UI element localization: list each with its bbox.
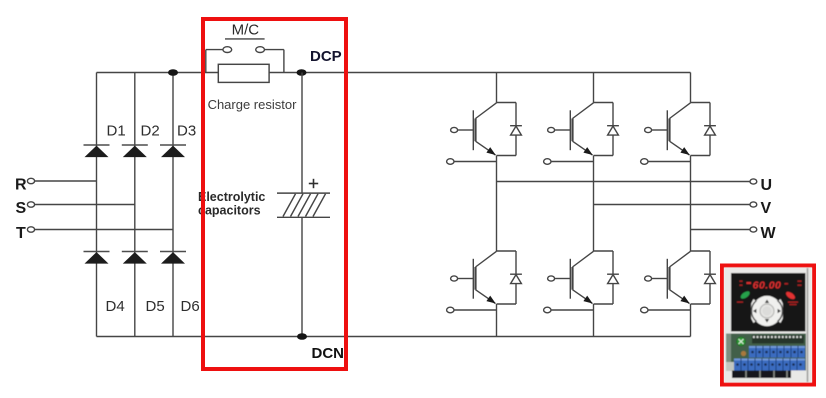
capacitor polarity plus [309, 179, 318, 188]
svg-text:S: S [16, 200, 27, 217]
auxiliary emitter Q5 [544, 307, 594, 313]
svg-text:Charge resistor: Charge resistor [208, 97, 298, 112]
svg-text:Electrolytic: Electrolytic [198, 190, 265, 204]
resistor charge resistor body [218, 64, 269, 82]
transistor IGBT Q2 [548, 103, 594, 155]
auxiliary emitter Q1 [447, 159, 497, 165]
label S [16, 200, 27, 217]
wire inverter leg2 middle [593, 156, 595, 252]
terminal V [750, 202, 757, 207]
label T [16, 225, 26, 242]
freewheel diode Q5 [594, 251, 619, 304]
label D1 [107, 123, 126, 140]
label W [761, 225, 777, 242]
label Charge resistor [208, 97, 298, 112]
svg-text:U: U [761, 177, 773, 194]
contactor M/C bypass wiring [206, 50, 284, 73]
auxiliary emitter Q3 [641, 159, 691, 165]
auxiliary emitter Q4 [447, 307, 497, 313]
terminal T [27, 227, 34, 232]
label V [761, 200, 772, 217]
wire phase U [497, 181, 751, 183]
transistor IGBT Q5 [548, 251, 594, 303]
wire input T [35, 229, 174, 231]
diode D6 [160, 252, 186, 264]
label D3 [177, 123, 196, 140]
auxiliary emitter Q2 [544, 159, 594, 165]
label Electrolytic capacitors [198, 190, 265, 217]
svg-text:D2: D2 [141, 123, 160, 140]
label D2 [141, 123, 160, 140]
terminal S [27, 202, 34, 207]
wire DC link lower [301, 217, 303, 336]
freewheel diode Q2 [594, 103, 619, 156]
highlight box charge circuit [203, 19, 346, 369]
contactor underline [225, 38, 265, 40]
freewheel diode Q6 [691, 251, 716, 304]
wire inverter leg3 middle [690, 156, 692, 252]
transistor IGBT Q3 [645, 103, 691, 155]
svg-text:D1: D1 [107, 123, 126, 140]
wire rectifier leg 2 vertical [134, 73, 136, 337]
svg-text:D5: D5 [146, 298, 165, 315]
svg-text:DCN: DCN [312, 345, 345, 362]
keypad photo [724, 268, 812, 383]
wire rectifier leg 1 vertical [96, 73, 98, 337]
wire inverter leg1 top [496, 73, 498, 103]
junction top bus / leg 3 [168, 69, 178, 76]
node DCP [297, 69, 307, 76]
transistor IGBT Q4 [451, 251, 497, 303]
label D5 [146, 298, 165, 315]
diode D5 [122, 252, 148, 264]
transistor IGBT Q6 [645, 251, 691, 303]
wire top DC bus left segment [97, 72, 219, 74]
wire inverter leg3 top [690, 73, 692, 103]
contactor M/C left contact [223, 47, 232, 53]
contactor M/C right contact [256, 47, 265, 53]
terminal U [750, 179, 757, 184]
svg-text:W: W [761, 225, 777, 242]
capacitor electrolytic [277, 193, 330, 217]
wire phase V [594, 204, 751, 206]
svg-text:D3: D3 [177, 123, 196, 140]
wire inverter leg1 middle [496, 156, 498, 252]
label D6 [181, 298, 200, 315]
wire inverter leg3 bottom [690, 304, 692, 337]
svg-text:capacitors: capacitors [198, 203, 261, 217]
svg-text:DCP: DCP [310, 48, 342, 65]
freewheel diode Q4 [497, 251, 522, 304]
label R [15, 177, 27, 194]
wire rectifier leg 3 vertical [172, 73, 174, 337]
diode D2 [122, 145, 148, 157]
wire inverter leg2 bottom [593, 304, 595, 337]
svg-text:M/C: M/C [232, 22, 260, 39]
freewheel diode Q1 [497, 103, 522, 156]
freewheel diode Q3 [691, 103, 716, 156]
svg-text:T: T [16, 225, 26, 242]
auxiliary emitter Q6 [641, 307, 691, 313]
label U [761, 177, 773, 194]
wire top DC bus right segment [269, 72, 690, 74]
node DCN [297, 333, 307, 340]
label DCN [312, 345, 345, 362]
label M/C [232, 22, 260, 39]
terminal W [750, 227, 757, 232]
wire input S [35, 204, 135, 206]
keypad photo highlight box [722, 266, 814, 385]
transistor IGBT Q1 [451, 103, 497, 155]
label DCP [310, 48, 342, 65]
svg-text:D6: D6 [181, 298, 200, 315]
diode D4 [84, 252, 110, 264]
svg-text:R: R [15, 177, 27, 194]
wire bottom DC bus [97, 336, 691, 338]
svg-text:V: V [761, 200, 772, 217]
label D4 [106, 298, 125, 315]
terminal R [27, 178, 34, 183]
wire phase W [691, 229, 751, 231]
wire inverter leg2 top [593, 73, 595, 103]
svg-text:60.00: 60.00 [753, 280, 782, 292]
wire DC link upper [301, 73, 303, 194]
wire inverter leg1 bottom [496, 304, 498, 337]
diode D1 [84, 145, 110, 157]
wire input R [35, 180, 97, 182]
diode D3 [160, 145, 186, 157]
svg-text:D4: D4 [106, 298, 125, 315]
